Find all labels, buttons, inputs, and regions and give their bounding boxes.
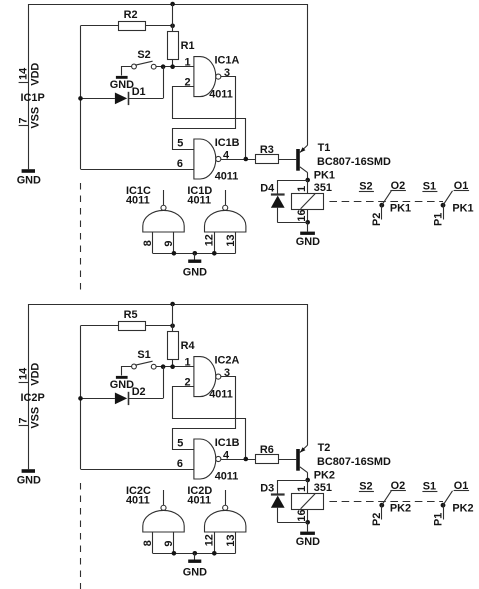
svg-text:GND: GND (110, 379, 134, 391)
svg-text:16: 16 (296, 209, 308, 221)
svg-text:VSS: VSS (29, 407, 41, 429)
svg-text:16: 16 (296, 509, 308, 521)
svg-text:4011: 4011 (126, 195, 150, 207)
svg-text:6: 6 (177, 158, 183, 170)
svg-text:S2: S2 (359, 481, 372, 493)
svg-text:S1: S1 (423, 481, 436, 493)
svg-text:R4: R4 (181, 340, 195, 352)
svg-text:4011: 4011 (187, 195, 211, 207)
svg-text:GND: GND (296, 536, 320, 548)
svg-text:D2: D2 (132, 386, 146, 398)
svg-text:8: 8 (142, 540, 154, 546)
svg-text:PK2: PK2 (314, 470, 335, 482)
svg-text:4011: 4011 (209, 88, 233, 100)
svg-text:IC1A: IC1A (215, 54, 240, 66)
svg-text:BC807-16SMD: BC807-16SMD (317, 456, 391, 468)
svg-text:1: 1 (296, 486, 308, 492)
svg-text:S2: S2 (137, 49, 150, 61)
svg-text:S1: S1 (423, 181, 436, 193)
svg-text:GND: GND (17, 475, 41, 487)
svg-text:4011: 4011 (126, 495, 150, 507)
svg-text:T2: T2 (318, 442, 331, 454)
svg-text:9: 9 (163, 541, 175, 547)
svg-text:IC1B: IC1B (215, 437, 240, 449)
svg-text:IC1P: IC1P (21, 92, 45, 104)
svg-text:4011: 4011 (187, 495, 211, 507)
svg-text:VSS: VSS (29, 107, 41, 129)
svg-text:351: 351 (314, 482, 332, 494)
svg-text:R6: R6 (260, 444, 274, 456)
svg-text:5: 5 (177, 438, 183, 450)
svg-text:GND: GND (183, 566, 207, 578)
svg-text:GND: GND (183, 266, 207, 278)
svg-text:GND: GND (296, 236, 320, 248)
svg-text:VDD: VDD (29, 363, 41, 386)
svg-text:D1: D1 (132, 86, 146, 98)
svg-text:PK2: PK2 (452, 503, 473, 515)
svg-text:P2: P2 (371, 213, 383, 226)
svg-text:PK1: PK1 (390, 203, 411, 215)
svg-text:R5: R5 (124, 309, 138, 321)
svg-text:IC1B: IC1B (215, 137, 240, 149)
svg-text:P2: P2 (371, 513, 383, 526)
svg-text:13: 13 (225, 234, 237, 246)
svg-text:R3: R3 (260, 144, 274, 156)
svg-text:GND: GND (17, 175, 41, 187)
svg-text:D3: D3 (260, 482, 274, 494)
svg-text:7: 7 (18, 418, 30, 424)
svg-text:4011: 4011 (215, 170, 239, 182)
svg-text:4011: 4011 (215, 470, 239, 482)
svg-text:S1: S1 (137, 349, 150, 361)
svg-text:R2: R2 (124, 9, 138, 21)
svg-text:VDD: VDD (29, 63, 41, 86)
svg-text:9: 9 (163, 241, 175, 247)
svg-text:6: 6 (177, 458, 183, 470)
svg-text:14: 14 (18, 68, 30, 80)
svg-text:R1: R1 (181, 40, 195, 52)
svg-text:IC2P: IC2P (21, 392, 45, 404)
svg-text:1: 1 (185, 57, 191, 69)
svg-text:D4: D4 (260, 182, 274, 194)
svg-text:5: 5 (177, 138, 183, 150)
svg-text:T1: T1 (318, 142, 331, 154)
svg-text:1: 1 (296, 186, 308, 192)
svg-text:P1: P1 (432, 213, 444, 226)
svg-text:13: 13 (225, 534, 237, 546)
svg-text:351: 351 (314, 182, 332, 194)
svg-text:PK2: PK2 (390, 503, 411, 515)
svg-text:14: 14 (18, 368, 30, 380)
svg-text:4011: 4011 (209, 388, 233, 400)
svg-text:8: 8 (142, 240, 154, 246)
svg-text:12: 12 (204, 534, 216, 546)
svg-text:IC2A: IC2A (215, 354, 240, 366)
svg-text:7: 7 (18, 118, 30, 124)
svg-text:P1: P1 (432, 513, 444, 526)
svg-text:S2: S2 (359, 181, 372, 193)
svg-text:BC807-16SMD: BC807-16SMD (317, 156, 391, 168)
svg-text:12: 12 (204, 234, 216, 246)
svg-text:PK1: PK1 (314, 170, 335, 182)
svg-text:GND: GND (110, 79, 134, 91)
svg-text:1: 1 (185, 357, 191, 369)
svg-text:PK1: PK1 (452, 203, 473, 215)
